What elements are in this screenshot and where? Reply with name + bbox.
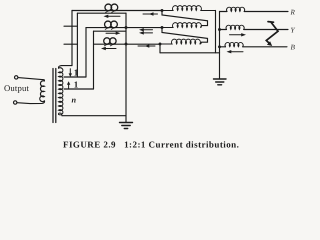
junction dot bus B — [218, 45, 221, 48]
arrow mid line1 left — [143, 13, 158, 15]
delta winding W2 — [162, 23, 201, 28]
wire Y line — [244, 29, 288, 31]
arrow mid line2 left upper — [144, 29, 153, 31]
svg-text:Output: Output — [4, 83, 29, 93]
ground symbol right — [214, 79, 227, 85]
transformer core — [53, 69, 56, 123]
wire vertical return to ground — [125, 13, 127, 122]
junction dot vertical-line3 — [125, 43, 128, 46]
arrow mid line2 left lower — [144, 32, 153, 34]
arrow under CT2 right — [106, 32, 116, 34]
wire tap2 lead — [64, 88, 94, 90]
svg-text:1: 1 — [74, 79, 79, 89]
output terminal top — [15, 76, 18, 79]
CT3 — [104, 38, 110, 44]
arrow under CT1 left — [108, 15, 120, 17]
wire secondary top lead — [61, 65, 72, 67]
arrow under Y right — [230, 34, 242, 36]
svg-text:Y: Y — [291, 26, 296, 34]
slant line1 to W2 — [162, 11, 208, 28]
phase coil Y — [226, 25, 244, 29]
wire riser phase1 — [71, 11, 73, 66]
svg-text:1: 1 — [74, 68, 79, 78]
CT1 — [105, 4, 112, 11]
wire line2 — [86, 27, 162, 29]
wire line3 — [94, 43, 161, 45]
wire stub left of line3 — [64, 43, 78, 45]
junction dot line1 — [161, 9, 164, 12]
junction dot line2 — [161, 26, 164, 29]
phase coil B — [225, 42, 243, 46]
wire bus-B lead — [220, 46, 226, 48]
output terminal bottom — [14, 101, 17, 104]
wire B line — [243, 46, 287, 48]
svg-text:R: R — [290, 8, 296, 16]
wire stub left of line2 — [64, 25, 77, 27]
wire bus-Y lead — [220, 29, 227, 31]
wire riser line2 — [85, 28, 87, 77]
arrow mid line3 left — [138, 45, 155, 47]
transformer secondary winding — [58, 66, 62, 116]
wire output bottom lead — [17, 101, 45, 104]
svg-text:FIGURE 2.9 1:2:1 Current dis: FIGURE 2.9 1:2:1 Current distribution. — [63, 139, 239, 149]
junction dot thread1-line2 — [125, 26, 128, 29]
wire W1 right drop — [215, 11, 217, 53]
delta winding W3 — [160, 39, 200, 44]
wire output top lead — [18, 78, 42, 80]
fault bolt between Y and B — [266, 22, 278, 44]
slant line2 to W3 — [162, 28, 208, 44]
wire R line — [244, 11, 288, 13]
transformer primary winding — [40, 80, 45, 102]
phase coil R — [227, 7, 245, 11]
arrow under CT3 left — [106, 48, 117, 50]
tap arrow 2 up — [68, 84, 70, 88]
delta winding W1 — [162, 6, 216, 11]
ground symbol left — [120, 123, 133, 129]
svg-text:n: n — [72, 95, 77, 104]
wire thread2 — [94, 30, 127, 32]
tap arrow 1 down — [69, 69, 71, 74]
wire line1 — [72, 10, 162, 12]
wire bottom ground lead — [62, 115, 126, 117]
wire bottom return line — [160, 52, 220, 54]
arrow under B left — [231, 51, 243, 53]
CT2 — [105, 21, 112, 28]
wire thread1 — [77, 12, 126, 14]
wire line3 drop to bottom — [159, 44, 161, 53]
wire bus to phase coils — [220, 12, 228, 53]
wire riser thread1 — [76, 13, 78, 77]
wire tap1 lead — [64, 76, 86, 78]
junction dot line3 — [159, 43, 162, 46]
wire right bus — [219, 53, 221, 79]
wire riser thread2 — [93, 31, 95, 89]
svg-text:B: B — [291, 44, 296, 52]
junction dot bus Y — [218, 28, 221, 31]
